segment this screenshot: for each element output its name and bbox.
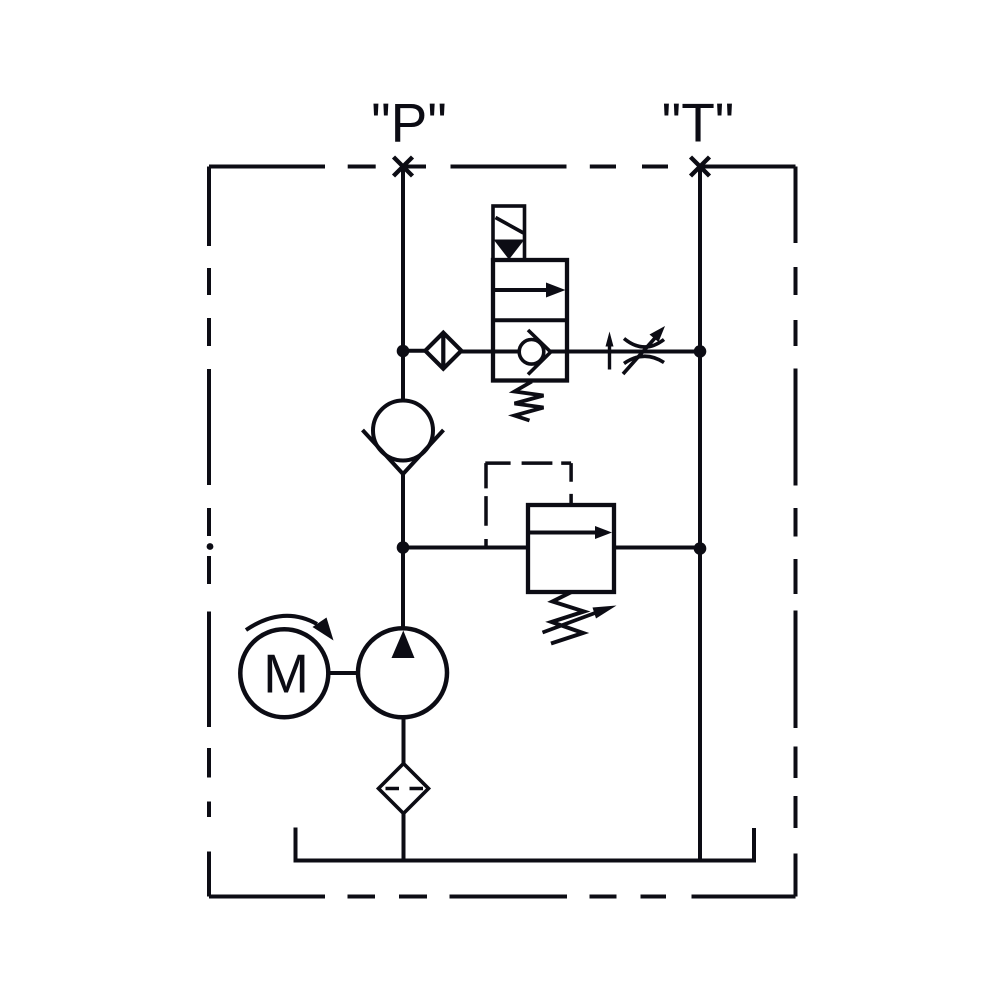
node junction P branch upper bbox=[397, 345, 410, 358]
motor M1 rotation arc bbox=[246, 616, 317, 630]
wire relief branch right bbox=[614, 546, 700, 550]
port P cross mark bbox=[394, 157, 413, 176]
throttle TH1 adjust arrow bbox=[623, 338, 655, 374]
wire T line bbox=[698, 167, 702, 861]
solenoid valve V1 check seat bbox=[528, 330, 551, 375]
wire relief branch left bbox=[403, 546, 528, 550]
solenoid valve V1 solenoid triangle bbox=[494, 240, 525, 260]
shaft motor to pump bbox=[328, 671, 358, 675]
check valve CV1 seat bbox=[363, 430, 444, 474]
solenoid valve V1 solenoid box bbox=[493, 206, 525, 260]
solenoid valve V1 body divider bbox=[493, 318, 567, 322]
filter F1 inner dashes bbox=[386, 787, 424, 791]
solenoid valve V1 flow arrow bbox=[493, 288, 549, 292]
svg-text:"P": "P" bbox=[371, 92, 447, 154]
wire branch to check valve CV2 bbox=[403, 349, 427, 353]
svg-text:"T": "T" bbox=[662, 92, 735, 154]
relief valve RV1 arrow bbox=[528, 531, 597, 535]
wire valve V1 to T line bbox=[550, 350, 700, 354]
enclosure dashed border bottom bbox=[209, 895, 796, 899]
arrow small vertical A1 bbox=[608, 344, 611, 370]
enclosure dashed border top bbox=[209, 165, 796, 169]
svg-text:M: M bbox=[263, 643, 309, 705]
node blob on left border bbox=[207, 543, 214, 550]
throttle TH1 upper arc bbox=[624, 339, 664, 348]
solenoid valve V1 check circle bbox=[519, 340, 544, 365]
solenoid valve V1 body bbox=[493, 260, 567, 381]
tank symbol bbox=[296, 828, 755, 861]
filter F1 diamond bbox=[379, 764, 429, 814]
node junction P branch lower bbox=[397, 541, 410, 554]
motor M1 circle bbox=[240, 629, 328, 717]
pump P1 circle bbox=[358, 628, 447, 717]
enclosure dashed border right bbox=[794, 167, 798, 897]
check valve CV2 diamond bbox=[425, 333, 461, 369]
relief valve RV1 adjust arrow bbox=[543, 612, 600, 633]
pump P1 flow triangle bbox=[392, 631, 415, 659]
motor M1 rotation arrowhead bbox=[313, 618, 334, 641]
solenoid valve V1 solenoid diagonal bbox=[496, 218, 524, 234]
enclosure dashed border left bbox=[207, 167, 211, 897]
wire P line mid bbox=[401, 474, 405, 629]
node junction T upper bbox=[694, 345, 707, 358]
port T cross mark bbox=[691, 157, 710, 176]
node junction T lower bbox=[694, 542, 707, 555]
check valve CV1 ball bbox=[373, 401, 433, 461]
throttle TH1 lower arc bbox=[624, 356, 664, 363]
wire filter to tank bbox=[402, 814, 406, 861]
relief valve RV1 body bbox=[528, 505, 614, 592]
wire P line upper bbox=[401, 167, 405, 402]
solenoid valve V1 spring bbox=[515, 382, 544, 421]
wire CV2 to valve V1 bbox=[460, 350, 520, 354]
relief valve RV1 spring bbox=[551, 592, 584, 644]
relief valve RV1 pilot dashed line bbox=[485, 463, 571, 547]
wire pump suction bbox=[402, 717, 406, 764]
